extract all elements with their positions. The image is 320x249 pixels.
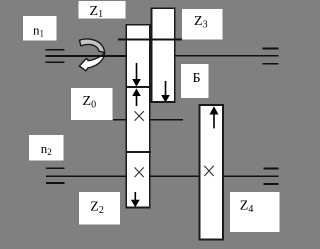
shaft III axis (Z0 shaft) (113, 119, 183, 121)
rotation arrow on input shaft: white front face (79, 39, 104, 71)
gear block C (gear Z4 block) (199, 105, 223, 240)
gear block A divider 1 (125, 86, 150, 88)
input shaft bearing hatch bottom (46, 61, 65, 63)
cross marker on block A upper (Z0 mesh) (135, 111, 144, 121)
output shaft right bearing hatch top (263, 168, 278, 170)
label box n1 (23, 16, 57, 41)
top right shaft line (to belt Б) (175, 55, 279, 57)
cross marker on block A lower (Z2 mesh) (135, 167, 144, 177)
arrow down at block A bottom (131, 192, 140, 207)
input shaft line (n1) over rotation arrow (46, 55, 127, 57)
arrow up in block C (210, 106, 219, 128)
shaft II axis line crossing gear blocks (118, 39, 182, 41)
shaft IV axis (n2 output shaft) (46, 175, 279, 177)
label box Z2 (79, 192, 120, 225)
top right bearing hatch bottom (263, 63, 279, 65)
output shaft left bearing hatch top (46, 167, 65, 169)
rotation arrow top face (grey) (79, 39, 104, 53)
label box Б (181, 64, 208, 98)
arrow down in block B (161, 81, 170, 103)
label box Z0 (71, 88, 113, 120)
gear block A divider 2 (125, 151, 150, 153)
cross marker on block C (Z4 mesh) (204, 166, 213, 176)
arrow down in block A top (132, 63, 141, 87)
svg-text:Б: Б (193, 71, 201, 86)
label box Z1 (79, 1, 126, 18)
output shaft left bearing hatch bottom (46, 182, 65, 184)
top right bearing hatch top (263, 48, 279, 50)
input shaft bearing hatch top (46, 49, 65, 51)
gear block A (sliding block with Z1, Z0, Z2) (126, 25, 150, 208)
label box Z3 (182, 9, 223, 40)
label box n2 (29, 135, 63, 161)
arrow up in block A middle (132, 88, 141, 106)
gear block B (gear Z3 block) (151, 8, 174, 102)
label box Z4 (230, 192, 280, 232)
output shaft right bearing hatch bottom (263, 183, 278, 185)
